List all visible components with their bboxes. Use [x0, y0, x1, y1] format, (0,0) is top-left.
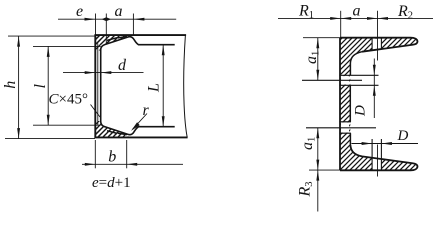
svg-text:r: r: [143, 102, 150, 119]
svg-text:e=d+1: e=d+1: [92, 175, 131, 191]
svg-text:e: e: [76, 3, 83, 20]
svg-text:a: a: [353, 2, 361, 19]
svg-text:D: D: [353, 105, 369, 117]
svg-text:d: d: [118, 57, 127, 74]
svg-text:l: l: [32, 84, 49, 89]
svg-text:×45°: ×45°: [59, 92, 88, 108]
svg-text:b: b: [108, 149, 116, 166]
svg-text:L: L: [146, 83, 163, 93]
svg-text:a: a: [115, 3, 123, 20]
svg-text:D: D: [397, 128, 409, 144]
svg-text:h: h: [2, 81, 19, 89]
